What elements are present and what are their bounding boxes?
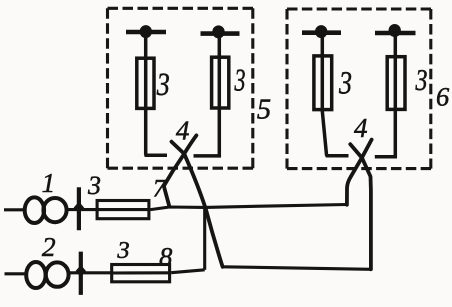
wire through fuse row 2 bbox=[110, 271, 171, 274]
svg-text:2: 2 bbox=[42, 231, 56, 262]
svg-text:7: 7 bbox=[153, 176, 167, 203]
changeover switch 4 of section 5 bbox=[164, 135, 223, 266]
fuse 7 body (row 1 horizontal insulator) bbox=[97, 201, 149, 219]
riser wire joining cable 8 to cable 7 line bbox=[203, 207, 206, 269]
transformer unit 1 (two windings) bbox=[25, 197, 67, 223]
section enclosure 6 (dashed box) bbox=[287, 9, 431, 169]
supply lead-in wire, unit 1 bbox=[4, 208, 24, 211]
changeover switch 4 of section 6 bbox=[347, 140, 372, 270]
wire, section 5 branch 1 down to switch bbox=[146, 33, 167, 155]
cable 8 wire to riser bbox=[171, 270, 205, 273]
wire from unit 2 to insulator bbox=[68, 271, 112, 274]
svg-text:3: 3 bbox=[338, 65, 352, 101]
supply lead-in wire, unit 2 bbox=[5, 272, 25, 275]
svg-text:3: 3 bbox=[116, 237, 129, 264]
bottom transfer wire to switch of section 6 bbox=[223, 267, 371, 270]
svg-text:5: 5 bbox=[257, 95, 271, 126]
electrode bar, section 5 branch 2 bbox=[201, 25, 240, 38]
svg-text:3: 3 bbox=[415, 62, 428, 97]
svg-text:3: 3 bbox=[156, 67, 170, 103]
wire, section 5 branch 2 down to switch bbox=[194, 34, 220, 156]
svg-text:3: 3 bbox=[87, 171, 101, 200]
wire through fuse row 1 bbox=[96, 208, 151, 211]
insulator 3, section 6 branch 2 bbox=[387, 57, 405, 110]
electrode bar, section 6 branch 1 bbox=[302, 25, 341, 38]
wire from unit 1 to insulator bbox=[66, 208, 97, 211]
insulator 3, section 5 branch 2 bbox=[212, 57, 229, 108]
wall bushing insulator 3 (row 1) bbox=[74, 187, 84, 230]
svg-text:8: 8 bbox=[159, 241, 172, 271]
wall bushing insulator (row 2) bbox=[76, 252, 86, 295]
svg-text:1: 1 bbox=[42, 168, 56, 198]
svg-text:4: 4 bbox=[176, 115, 190, 145]
cable 7 wire to switches bbox=[151, 205, 347, 210]
svg-text:6: 6 bbox=[436, 82, 450, 112]
section enclosure 5 (dashed box) bbox=[108, 8, 254, 168]
wire, section 6 branch 2 down to switch bbox=[375, 33, 396, 157]
insulator 3, section 5 branch 1 bbox=[137, 58, 154, 108]
electrode bar, section 6 branch 2 bbox=[375, 24, 416, 37]
transformer unit 2 (two windings) bbox=[26, 262, 68, 288]
fuse body (row 2 horizontal insulator) bbox=[112, 265, 170, 282]
svg-text:3: 3 bbox=[234, 62, 246, 98]
electrode bar, section 5 branch 1 bbox=[126, 25, 166, 38]
svg-text:4: 4 bbox=[354, 113, 368, 143]
insulator 3, section 6 branch 1 bbox=[314, 56, 332, 110]
wire, section 6 branch 1 down to switch bbox=[322, 33, 348, 156]
